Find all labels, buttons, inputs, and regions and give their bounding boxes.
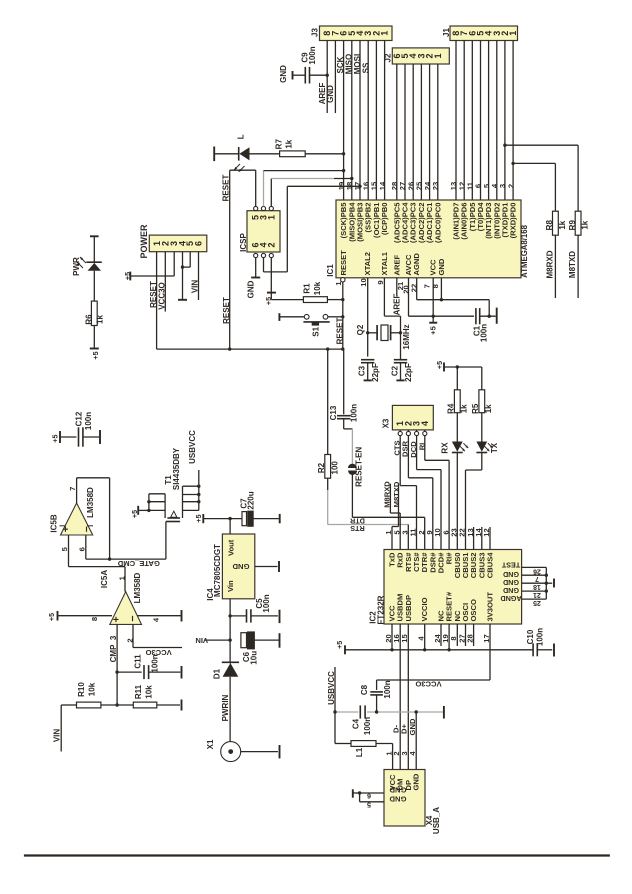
wire J2 pin1 to IC1 pin23	[437, 64, 439, 200]
ground bar at C6	[279, 633, 281, 648]
ground bar at C9	[279, 65, 292, 83]
wire J2 pin5 to IC1 pin27	[404, 64, 406, 200]
resistor R8 1k	[545, 211, 567, 235]
net label MOSI	[353, 54, 362, 74]
IC1 reference label	[326, 264, 335, 277]
wire USBVCC stub at T1 drain	[198, 470, 200, 486]
svg-text:+5: +5	[264, 297, 273, 305]
svg-text:CMP_3: CMP_3	[109, 635, 118, 662]
svg-text:C8: C8	[360, 684, 369, 695]
net label USBVCC at T1	[188, 430, 197, 464]
svg-text:CBUS4: CBUS4	[486, 552, 495, 579]
wire USBDP	[407, 624, 409, 770]
wire J3 pin1 to IC1 pin14	[384, 41, 386, 201]
wire J1 pin7 to IC1 pin12	[463, 41, 465, 201]
wire J2 pin6 to IC1 pin28	[396, 64, 398, 200]
supply +5 at POWER pin3	[123, 272, 132, 281]
wire AREF pin21 stub	[396, 278, 405, 296]
wire RI from X3 pin4	[425, 436, 449, 550]
wire GND pin8	[431, 278, 443, 302]
svg-text:GND: GND	[503, 578, 519, 587]
svg-text:XTAL1: XTAL1	[380, 251, 389, 275]
capacitor C9	[293, 46, 328, 83]
wire ICSP pin2 to +5	[270, 258, 272, 293]
wire VIN branch label	[205, 639, 230, 641]
svg-text:100n: 100n	[84, 412, 93, 430]
supply +5 label at rail	[335, 641, 345, 655]
svg-text:R5: R5	[471, 403, 480, 414]
net label M8RXD	[546, 250, 555, 278]
wire POWER pin1 RESET	[156, 252, 158, 349]
sheet border bottom line	[24, 854, 610, 856]
wire USBVCC vertical	[335, 667, 351, 744]
inductor L1 ferrite	[351, 741, 393, 770]
resistor R9 1k	[568, 211, 590, 235]
ic IC4 MC7805CDGT body	[206, 534, 255, 601]
wire CMP net IC5A pin3	[115, 624, 118, 706]
connector X1 power jack	[206, 739, 278, 762]
net label RESET vertical	[335, 318, 344, 345]
net label GND at USB pin4	[408, 718, 417, 735]
svg-text:100n: 100n	[349, 404, 358, 422]
diode D1	[213, 662, 240, 741]
svg-text:4: 4	[420, 421, 430, 426]
svg-text:+5: +5	[123, 272, 132, 280]
ic IC2 FT232R body	[384, 550, 522, 625]
svg-text:3V3OUT: 3V3OUT	[486, 592, 495, 622]
net label SCK	[336, 56, 345, 73]
wire TX led to CBUS1	[466, 453, 482, 550]
ic IC1 ATMEGA8/168 body	[336, 200, 521, 278]
wire J1 pin1 to IC1 pin2	[512, 41, 514, 201]
wire POWER pin2 VCC3O stub	[164, 252, 166, 312]
svg-text:ATMEGA8/168: ATMEGA8/168	[520, 224, 529, 277]
svg-text:+5: +5	[428, 325, 437, 334]
svg-text:VIN: VIN	[195, 636, 208, 645]
svg-text:Vin: Vin	[226, 580, 235, 592]
wire J2 pin3 to IC1 pin25	[420, 64, 422, 200]
svg-text:100n: 100n	[363, 717, 372, 735]
resistor R2 100	[317, 349, 340, 490]
net label RI	[417, 443, 426, 451]
wire M8RXD stub	[554, 235, 556, 298]
svg-text:10k: 10k	[313, 281, 322, 295]
wire J1 pin4 to IC1 pin5	[488, 41, 490, 201]
svg-text:DTR: DTR	[349, 517, 365, 526]
capacitor C13 100n	[329, 349, 359, 429]
svg-text:R8: R8	[545, 220, 554, 231]
svg-text:1k: 1k	[459, 404, 468, 413]
supply +5 at R6	[90, 349, 100, 360]
led PWR	[72, 236, 102, 276]
wire ICSP SCK riser	[264, 169, 346, 207]
svg-text:USB_A: USB_A	[432, 807, 441, 834]
net label VCC3O at IC5A	[145, 648, 171, 657]
net label RESET lower	[222, 297, 231, 324]
wire MOSI net J3 to IC1 pin17	[359, 41, 361, 201]
wire J1 pin2 to IC1 pin3	[504, 41, 506, 201]
IC1 left-side pin names	[339, 250, 446, 276]
wire IC5B pin5 from IC5A output	[69, 535, 126, 592]
wire AVCC pin20	[402, 278, 434, 316]
wire J3 AREF stub	[326, 41, 328, 114]
net label VIN rotated	[195, 636, 208, 645]
wire J3 GND stub	[334, 41, 336, 114]
svg-text:VIN: VIN	[52, 729, 61, 743]
wire USB ground gray	[333, 710, 444, 713]
svg-text:100n: 100n	[479, 324, 488, 342]
svg-text:16MHz: 16MHz	[402, 324, 411, 349]
capacitor C1 100n	[433, 308, 496, 342]
svg-text:6: 6	[77, 547, 86, 551]
svg-text:1k: 1k	[558, 220, 567, 229]
wire CTS from X3 pin1	[400, 436, 416, 550]
svg-text:100n: 100n	[151, 654, 160, 672]
capacitor C5 100n	[230, 594, 278, 622]
wire RESET horizontal run	[157, 347, 345, 350]
svg-text:RESET: RESET	[335, 318, 344, 345]
node GND label	[326, 85, 335, 103]
svg-text:C11: C11	[133, 654, 142, 669]
svg-text:100: 100	[330, 461, 339, 475]
node AREF label	[318, 83, 327, 105]
wire J2 pin4 to IC1 pin26	[412, 64, 414, 200]
svg-text:RI: RI	[417, 443, 426, 451]
capacitor C2 22pF	[391, 360, 414, 382]
wire ICSP pin6 GND	[247, 258, 261, 299]
svg-text:220u: 220u	[247, 491, 256, 509]
svg-text:10k: 10k	[87, 682, 96, 696]
svg-text:GND: GND	[412, 773, 421, 790]
svg-text:1: 1	[266, 215, 276, 220]
ground bar at USB	[443, 706, 445, 719]
svg-text:AREF: AREF	[392, 254, 401, 275]
svg-text:100n: 100n	[535, 628, 544, 646]
svg-text:9: 9	[376, 280, 385, 284]
svg-text:MC7805CDGT: MC7805CDGT	[213, 544, 222, 597]
ground bar at C5	[279, 610, 281, 623]
wire M8RXD to RxD	[390, 484, 400, 550]
svg-text:VCCIO: VCCIO	[420, 597, 429, 621]
svg-text:J1: J1	[442, 28, 451, 37]
ground bar at IC2 right	[553, 579, 555, 588]
svg-text:D1: D1	[213, 668, 222, 679]
svg-text:1: 1	[508, 31, 518, 36]
svg-text:POWER: POWER	[139, 224, 149, 259]
svg-text:L1: L1	[355, 747, 364, 757]
svg-text:X1: X1	[206, 739, 215, 749]
svg-text:GND: GND	[247, 280, 256, 298]
svg-text:RESET: RESET	[221, 175, 230, 202]
resistor R5 1k	[471, 367, 493, 414]
net label AREF at pin21	[393, 294, 402, 316]
net label PWRIN	[221, 694, 230, 721]
wire IC4 GND pin	[255, 566, 278, 568]
wire SS net J3 to IC1 pin16	[367, 41, 369, 201]
svg-text:100n: 100n	[308, 46, 317, 64]
wire IC5A pin8 +5	[47, 611, 112, 621]
svg-text:J2: J2	[384, 53, 393, 62]
svg-text:RESET: RESET	[149, 281, 158, 308]
svg-text:(ADC0)PC0: (ADC0)PC0	[433, 203, 442, 244]
net label VCC3O	[415, 679, 441, 688]
svg-text:100n: 100n	[262, 594, 271, 612]
net label M8RXD at IC2	[383, 481, 392, 508]
svg-text:RESET-EN: RESET-EN	[355, 447, 364, 487]
capacitor C11 100n	[117, 654, 180, 679]
wire IC2 VCC pin20	[391, 624, 393, 650]
wire RXD PD0 to R8	[511, 162, 555, 212]
svg-text:LM358D: LM358D	[133, 572, 142, 603]
resistor R11 10k	[117, 684, 180, 708]
svg-text:+: +	[60, 526, 72, 532]
svg-text:−: −	[81, 526, 93, 532]
wire J1 pin8 to IC1 pin13	[455, 41, 457, 201]
op-amp IC5B LM358D	[50, 487, 95, 552]
connector J3	[311, 26, 393, 41]
svg-text:+5: +5	[335, 641, 344, 649]
ground bar at C7	[279, 514, 281, 523]
wire ICSP MOSI route	[264, 185, 362, 272]
wire X4 shield pins 5 6	[353, 791, 384, 809]
svg-text:Q2: Q2	[356, 324, 365, 335]
svg-text:+: +	[110, 616, 122, 622]
svg-text:RX: RX	[441, 442, 450, 454]
svg-text:S1: S1	[311, 326, 320, 336]
transistor T1 SI4435DBY p-mosfet	[147, 447, 200, 521]
svg-text:C2: C2	[391, 365, 400, 376]
svg-text:+5: +5	[435, 361, 444, 369]
svg-text:(ICP)PB0: (ICP)PB0	[380, 203, 389, 236]
svg-text:GND: GND	[437, 258, 446, 275]
net label CMP_3	[109, 635, 118, 662]
wire POWER pin6 VIN stub	[198, 252, 200, 300]
wire POWER pin4 pin5 to GND	[181, 252, 190, 300]
wire DTR	[352, 517, 424, 549]
wire IC2 VCCIO pin4	[424, 624, 426, 650]
svg-text:M8RXD: M8RXD	[546, 250, 555, 278]
svg-text:AGND: AGND	[412, 253, 421, 276]
capacitor C4 100n	[352, 705, 372, 735]
net label DTR	[349, 517, 365, 526]
wire XTAL2 pin10	[359, 278, 368, 357]
wire XTAL1 pin9	[376, 278, 400, 360]
svg-text:100n: 100n	[383, 680, 392, 698]
IC2 bottom pin names and numbers	[384, 591, 495, 643]
svg-text:TEST: TEST	[501, 560, 520, 569]
svg-text:1k: 1k	[284, 139, 293, 148]
svg-text:GND: GND	[503, 570, 519, 579]
svg-text:M8TXD: M8TXD	[568, 251, 577, 278]
wire RESET rail from ICSP	[230, 170, 256, 349]
supply +5 at IC4 output	[194, 514, 203, 523]
svg-text:M8RXD: M8RXD	[383, 481, 392, 508]
resistor R10 10k	[61, 682, 117, 708]
wire IC5A pin2 VCC3O	[126, 624, 183, 647]
capacitor C7 220u polarized	[240, 491, 279, 526]
svg-text:6: 6	[194, 241, 204, 246]
wire GATE_CMD net	[86, 522, 166, 561]
wire J2 pin2 to IC1 pin24	[429, 64, 431, 200]
svg-text:7: 7	[68, 487, 77, 491]
svg-text:VCC3O: VCC3O	[415, 679, 441, 688]
svg-text:R10: R10	[77, 682, 86, 697]
svg-text:J3: J3	[311, 28, 320, 37]
svg-text:+5: +5	[194, 514, 203, 522]
svg-text:1: 1	[380, 31, 390, 36]
wire SCK net J3 to IC1 pin19	[343, 41, 345, 201]
supply +5 at T1 source	[130, 506, 149, 518]
IC1 value label ATMEGA8/168	[520, 224, 529, 277]
net label RESET upper	[221, 175, 230, 202]
wire +5 rail at IC2	[345, 648, 533, 651]
svg-text:1k: 1k	[484, 404, 493, 413]
svg-text:25: 25	[533, 599, 541, 606]
svg-text:7: 7	[535, 575, 539, 582]
svg-text:R4: R4	[446, 403, 455, 414]
wire VIN stub at R10	[60, 705, 62, 752]
svg-text:LM358D: LM358D	[86, 487, 95, 518]
net label DCD	[409, 441, 418, 458]
svg-text:XTAL2: XTAL2	[363, 252, 372, 276]
svg-text:26: 26	[533, 567, 541, 574]
svg-text:GATE_CMD: GATE_CMD	[117, 559, 160, 568]
wire M8TXD stub	[577, 235, 579, 298]
solder jumper RESET-EN	[348, 429, 364, 517]
resistor R1 10k	[271, 281, 344, 302]
led RX	[441, 413, 469, 454]
wire DSR from X3 pin2	[408, 436, 432, 550]
svg-text:GND: GND	[326, 85, 335, 103]
svg-text:SS: SS	[361, 62, 370, 73]
svg-text:OSCO: OSCO	[469, 599, 478, 621]
svg-text:PWRIN: PWRIN	[221, 694, 230, 721]
net label GATE_CMD	[117, 559, 160, 568]
capacitor C3 22pF	[358, 360, 381, 382]
svg-text:1k: 1k	[581, 220, 590, 229]
wire M8TXD to TxD	[392, 484, 399, 550]
svg-text:C10: C10	[526, 629, 535, 644]
crystal Q2 16MHz	[356, 324, 411, 350]
net label RTS	[350, 524, 365, 533]
wire IC2 RESET# pin19	[448, 624, 450, 650]
svg-text:8: 8	[90, 617, 99, 621]
svg-text:21: 21	[533, 591, 541, 598]
connector J2	[384, 48, 450, 64]
supply +5 at pin7	[428, 323, 437, 335]
svg-text:1: 1	[433, 53, 443, 58]
svg-text:PWR: PWR	[72, 257, 81, 276]
svg-text:SI4435DBY: SI4435DBY	[172, 447, 181, 490]
net label SS	[361, 62, 370, 73]
svg-text:TX: TX	[490, 442, 499, 453]
ground bar at R11	[181, 700, 183, 711]
wire IC2 NC OSCI OSCO stubs	[441, 624, 474, 646]
svg-text:GND: GND	[389, 786, 406, 795]
capacitor C8 100n	[360, 680, 392, 712]
svg-text:2: 2	[266, 242, 276, 247]
svg-text:R2: R2	[317, 462, 326, 473]
net label VCC3O at POWER	[158, 282, 167, 310]
svg-text:R6: R6	[85, 314, 94, 325]
svg-text:AREF: AREF	[393, 294, 402, 316]
net label D-	[392, 725, 401, 733]
wire RTS gray	[328, 490, 409, 550]
net label CTS	[393, 440, 402, 455]
ground bar at C10	[553, 644, 555, 657]
svg-text:2: 2	[126, 638, 135, 642]
wire VCC pin7 to +5	[423, 278, 435, 323]
svg-text:23: 23	[431, 182, 440, 190]
resistor R7 1k	[250, 139, 346, 157]
wire DCD from X3 pin3	[417, 436, 441, 550]
net label RESET at POWER	[149, 281, 158, 308]
svg-text:10: 10	[359, 278, 368, 286]
connector POWER	[139, 224, 207, 259]
junction C9 to AREF stub	[326, 74, 329, 77]
svg-text:+5: +5	[51, 435, 60, 443]
connector ICSP	[239, 206, 280, 257]
svg-text:M8TXD: M8TXD	[392, 481, 401, 507]
ground bar at C11	[181, 666, 183, 679]
capacitor C6 10u polarized	[241, 632, 279, 665]
connector X3	[382, 405, 434, 435]
svg-text:GND: GND	[232, 562, 249, 571]
ground bar at IC4	[278, 561, 280, 572]
svg-text:22pF: 22pF	[404, 363, 413, 382]
net label M8TXD at IC2	[392, 481, 401, 507]
ground bar at led L	[213, 147, 215, 162]
svg-text:R11: R11	[134, 684, 143, 699]
wire J3 pin2 to IC1 pin15	[375, 41, 377, 201]
svg-text:VIN: VIN	[191, 280, 200, 294]
svg-text:AGND: AGND	[500, 594, 521, 603]
svg-text:10u: 10u	[250, 651, 259, 665]
net label MISO	[345, 54, 354, 74]
capacitor C12 100n with +5 and GND	[51, 411, 101, 447]
wire MISO net J3 to IC1 pin18	[351, 41, 353, 201]
svg-text:C3: C3	[358, 365, 367, 376]
svg-text:5: 5	[367, 801, 371, 810]
svg-text:L: L	[237, 134, 246, 139]
svg-text:IC5B: IC5B	[50, 514, 59, 532]
wire J1 pin3 to IC1 pin4	[496, 41, 498, 201]
svg-text:RESET: RESET	[222, 297, 231, 324]
net label M8TXD	[568, 251, 577, 278]
supply +5 at R4 R5	[435, 361, 482, 372]
wire IC5A pin4 GND	[137, 610, 182, 622]
resistor R6 1k	[85, 271, 105, 349]
svg-text:FT232R: FT232R	[376, 595, 385, 624]
wire POWER pin3 to +5	[130, 252, 174, 276]
ground bar at X4 shield	[352, 789, 354, 797]
svg-text:Vout: Vout	[227, 539, 236, 556]
svg-text:USBDP: USBDP	[404, 595, 413, 622]
svg-text:1k: 1k	[96, 315, 105, 324]
svg-text:R9: R9	[568, 220, 577, 231]
IC2 top pin numbers	[384, 528, 491, 537]
svg-text:C12: C12	[75, 411, 84, 426]
IC2 CBUS2 CBUS3 CBUS4 stubs	[474, 527, 490, 550]
svg-text:22: 22	[409, 284, 418, 292]
svg-text:−: −	[127, 616, 139, 622]
svg-text:8: 8	[431, 284, 440, 288]
led TX	[476, 413, 498, 453]
wire USB GND pin4	[415, 712, 417, 770]
IC2 top pin names	[388, 552, 495, 579]
wire +5 output of IC4	[203, 517, 242, 534]
svg-text:14: 14	[378, 181, 387, 190]
